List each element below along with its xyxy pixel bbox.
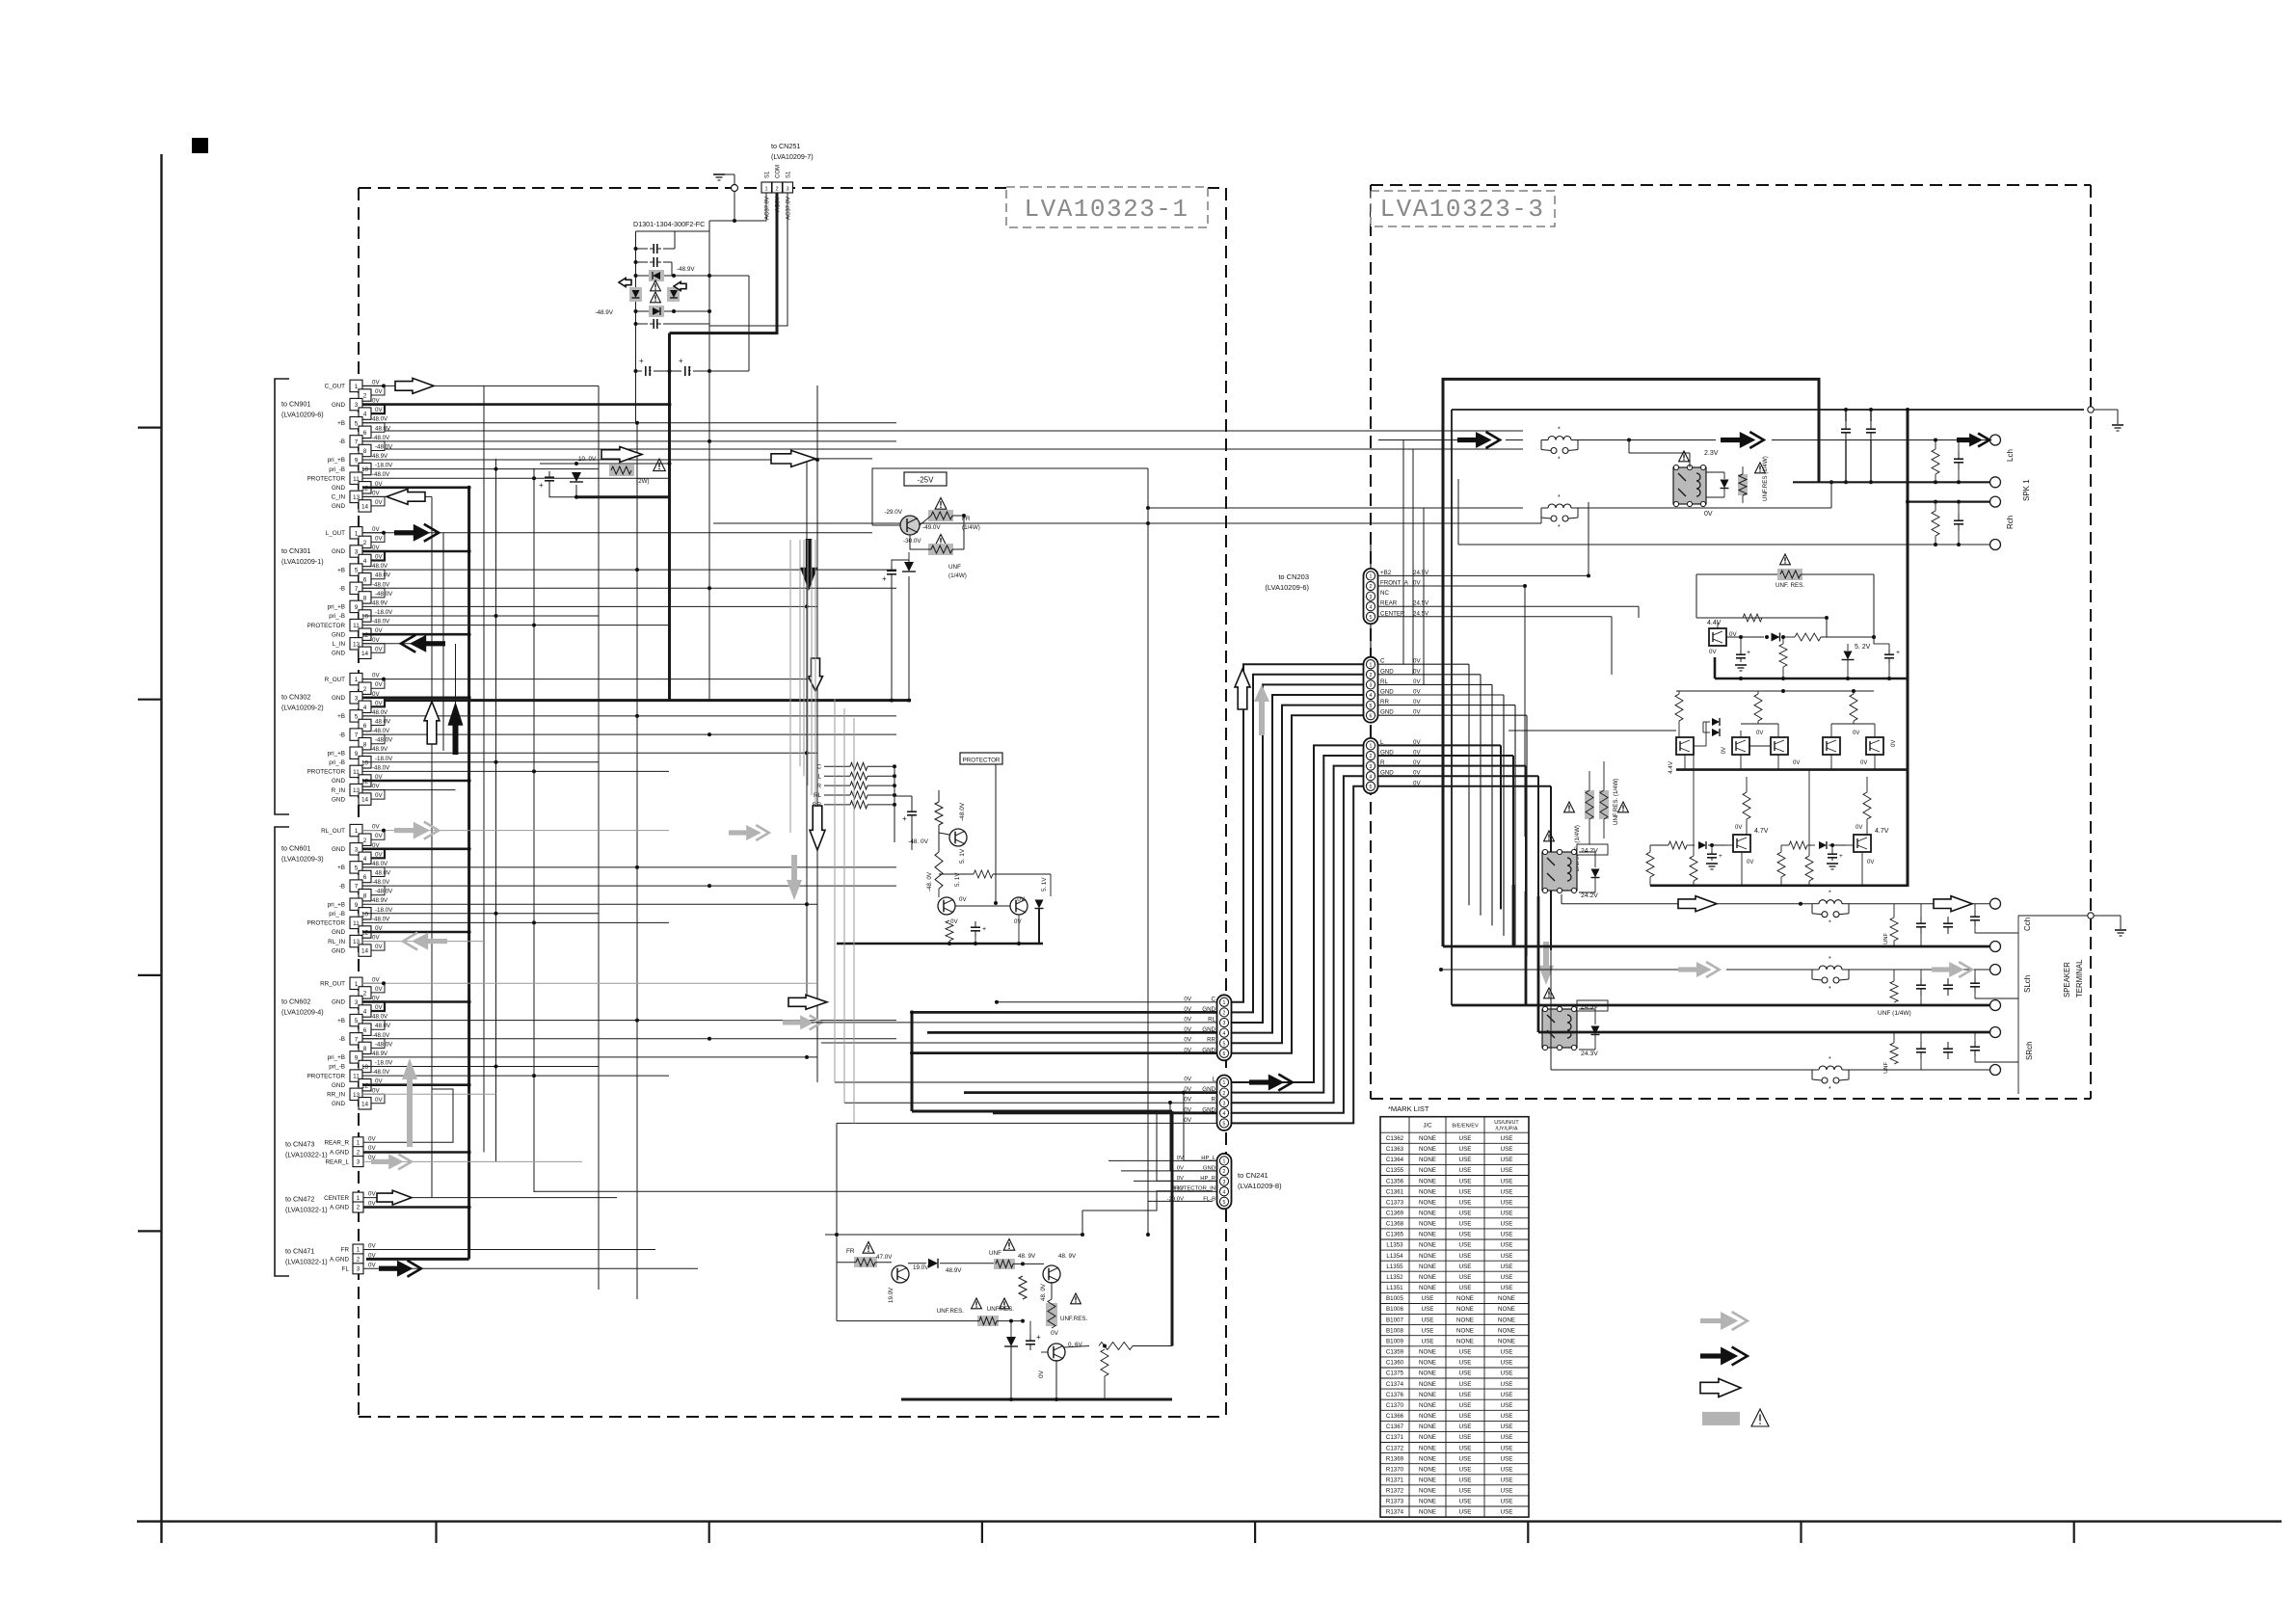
svg-text:*: * xyxy=(1829,1086,1831,1093)
svg-text:USE: USE xyxy=(1501,1455,1513,1462)
svg-text:R1372: R1372 xyxy=(1386,1488,1404,1495)
svg-text:*: * xyxy=(1829,920,1831,927)
svg-text:+: + xyxy=(1839,853,1843,860)
bridge electrolytic cap 1 xyxy=(636,370,643,372)
svg-text:L1353: L1353 xyxy=(1386,1242,1403,1249)
wire CN302 pin3-pin4 jumper xyxy=(362,698,385,707)
svg-text:19.0V: 19.0V xyxy=(913,1264,929,1271)
svg-text:1: 1 xyxy=(1223,1080,1226,1086)
svg-text:USE: USE xyxy=(1501,1392,1513,1398)
svg-text:(1/4W): (1/4W) xyxy=(962,524,980,531)
svg-text:C1373: C1373 xyxy=(1386,1199,1404,1206)
svg-text:(LVA10209-1): (LVA10209-1) xyxy=(281,557,324,566)
connector CN301 pin 2 xyxy=(359,536,371,547)
svg-text:6: 6 xyxy=(363,1027,367,1034)
connector CN301 pin 1 xyxy=(350,527,362,539)
diode RY3 xyxy=(1591,1026,1600,1035)
svg-text:5. 1V: 5. 1V xyxy=(1041,877,1048,891)
svg-text:3: 3 xyxy=(1370,595,1373,600)
wire stack gray feeds xyxy=(799,540,801,766)
wire J4 GND right xyxy=(1378,755,1513,757)
svg-text:+B: +B xyxy=(337,420,345,427)
connector CN602 pin 7 xyxy=(350,1033,362,1045)
terminal Rch+ xyxy=(1990,496,2001,507)
warning RY1 xyxy=(1679,451,1690,462)
warning RY2 xyxy=(1544,831,1555,841)
wire bus x837 xyxy=(806,459,808,1002)
arrow black Lch feed xyxy=(1457,438,1478,442)
svg-text:pri_+B: pri_+B xyxy=(328,457,345,464)
connector CN302 pin 8 xyxy=(359,738,371,750)
svg-text:14: 14 xyxy=(361,651,369,657)
svg-text:B1009: B1009 xyxy=(1386,1339,1403,1345)
svg-text:24.3V: 24.3V xyxy=(1581,1051,1598,1057)
svg-text:-48.0V: -48.0V xyxy=(372,435,390,441)
wire CN901 pin5 net xyxy=(362,422,896,424)
svg-text:+: + xyxy=(539,481,544,490)
svg-text:-B: -B xyxy=(339,883,345,890)
svg-text:GND: GND xyxy=(332,695,345,702)
svg-text:NONE: NONE xyxy=(1419,1466,1436,1473)
wire CN602 pin1 net xyxy=(362,982,817,984)
svg-text:+B: +B xyxy=(337,713,345,720)
svg-text:NONE: NONE xyxy=(1498,1339,1515,1345)
svg-text:4: 4 xyxy=(1370,604,1373,610)
legend gray double arrow xyxy=(1700,1318,1722,1323)
svg-text:UNF. RES.: UNF. RES. xyxy=(1775,582,1804,589)
svg-text:RL_IN: RL_IN xyxy=(328,939,345,945)
gray feed wires xyxy=(789,540,791,833)
bridge cap C upper xyxy=(636,248,649,250)
wire J4 p5 right xyxy=(1378,785,1551,787)
svg-text:NONE: NONE xyxy=(1456,1295,1474,1302)
bridge arrow left upper xyxy=(619,279,631,287)
connector CN301 pin 7 xyxy=(350,582,362,594)
svg-text:*: * xyxy=(1829,956,1831,963)
arrow hollow Cch xyxy=(1678,896,1717,912)
svg-text:LVA10323-1: LVA10323-1 xyxy=(1024,195,1188,224)
wire bundle A3 xyxy=(1232,684,1363,1023)
wire CN302 pin11 net xyxy=(362,770,669,772)
wire 1123 riser xyxy=(1081,1211,1083,1235)
svg-text:L: L xyxy=(817,773,821,780)
resistor v 1091 xyxy=(1046,1303,1057,1326)
connector CN602 pin 10 xyxy=(359,1060,371,1072)
svg-text:9: 9 xyxy=(355,604,359,611)
svg-text:to CN473: to CN473 xyxy=(285,1139,314,1148)
wire Lch feed xyxy=(1378,439,1457,441)
svg-text:3: 3 xyxy=(1370,764,1373,770)
svg-text:USE: USE xyxy=(1501,1445,1513,1451)
svg-text:GND: GND xyxy=(332,846,345,853)
svg-text:to CN602: to CN602 xyxy=(281,997,310,1005)
resistor mid2 xyxy=(1795,633,1821,641)
cap SLch pair xyxy=(1920,978,1922,985)
wire CN602 pin5-pin6 jumper xyxy=(362,1021,385,1030)
svg-text:6: 6 xyxy=(363,430,367,437)
svg-text:24.2V: 24.2V xyxy=(1581,892,1598,899)
svg-text:7: 7 xyxy=(355,884,359,891)
svg-text:-48.0V: -48.0V xyxy=(959,802,966,821)
wire CN601 pin7-pin8 jumper xyxy=(362,886,385,895)
wire CN251 pin2 thick drop xyxy=(670,193,778,333)
svg-text:0V: 0V xyxy=(950,918,958,925)
svg-text:UNF.RES (1/4W): UNF.RES (1/4W) xyxy=(1762,456,1769,501)
svg-text:-30.0V: -30.0V xyxy=(903,538,921,545)
resistor Cch net xyxy=(1890,918,1898,941)
arrow hollow down x848b xyxy=(810,806,825,850)
wire thick zener out y515 xyxy=(576,495,670,498)
node on dashed edge (circle) xyxy=(732,185,738,192)
svg-text:NONE: NONE xyxy=(1419,1434,1436,1441)
wire CN602 pin10 net xyxy=(362,1066,599,1068)
svg-text:GND: GND xyxy=(332,485,345,492)
svg-text:NONE: NONE xyxy=(1419,1232,1436,1238)
svg-text:+B2: +B2 xyxy=(1380,570,1392,576)
svg-text:C_OUT: C_OUT xyxy=(325,384,345,390)
svg-text:PROTECTOR: PROTECTOR xyxy=(307,623,346,629)
wire rail to board3 y527 xyxy=(1148,507,1523,509)
transistor Q FR xyxy=(892,1265,909,1283)
PROTECTOR label box xyxy=(960,753,1002,764)
svg-text:3: 3 xyxy=(1370,683,1373,689)
svg-text:0V: 0V xyxy=(375,1097,383,1104)
wire bus x848 xyxy=(816,386,818,1082)
connector CN301 pin 10 xyxy=(359,610,371,622)
svg-text:USE: USE xyxy=(1501,1274,1513,1281)
wire CN301 pin7 net xyxy=(362,587,896,589)
svg-text:7: 7 xyxy=(355,1036,359,1043)
svg-text:pri_+B: pri_+B xyxy=(328,604,345,611)
svg-text:NONE: NONE xyxy=(1419,1221,1436,1228)
svg-text:9: 9 xyxy=(355,458,359,465)
svg-text:0V: 0V xyxy=(372,490,380,496)
wire amp pair3 xyxy=(1831,723,1875,725)
svg-text:D1301-1304-300F2-FC: D1301-1304-300F2-FC xyxy=(633,220,705,228)
wire feed SRch thick xyxy=(1537,896,1540,1032)
wire CN241 HP feeds xyxy=(1183,1093,1185,1161)
svg-text:pri_+B: pri_+B xyxy=(328,750,345,757)
svg-text:REAR_R: REAR_R xyxy=(324,1140,349,1147)
svg-text:to CN601: to CN601 xyxy=(281,844,310,853)
svg-text:USE: USE xyxy=(1459,1466,1472,1473)
wire CN472 pin1 net xyxy=(363,1197,617,1199)
svg-text:2: 2 xyxy=(357,1149,360,1156)
svg-text:B/E/EN/EV: B/E/EN/EV xyxy=(1452,1124,1479,1130)
wire CN203 risers xyxy=(1588,502,1589,575)
transistor Q1 cluster xyxy=(949,829,967,846)
wire CN302 pin5-pin6 jumper xyxy=(362,716,385,726)
svg-text:USE: USE xyxy=(1459,1157,1472,1163)
svg-text:C1355: C1355 xyxy=(1386,1167,1404,1174)
wire CN901 pin3-pin4 jumper xyxy=(362,405,385,414)
diode pre47a xyxy=(1698,841,1706,849)
arrow gray up bundle xyxy=(1254,684,1269,735)
wire CN471 pin3 net xyxy=(363,1267,698,1269)
svg-text:1: 1 xyxy=(1223,1000,1226,1006)
wire CN302 pin1 net xyxy=(362,678,817,680)
wire CN301 pin3-pin4 jumper xyxy=(362,551,385,561)
svg-text:PROTECTOR: PROTECTOR xyxy=(307,920,346,927)
svg-text:-29.0V: -29.0V xyxy=(884,509,902,516)
svg-text:NONE: NONE xyxy=(1419,1499,1436,1505)
svg-text:USE: USE xyxy=(1459,1178,1472,1184)
transistor Q3 cluster xyxy=(1010,897,1028,915)
wire -B rail to board3 y466 xyxy=(385,448,1523,450)
wire J2 feeders xyxy=(834,699,836,1082)
svg-text:+: + xyxy=(679,357,683,365)
svg-text:USE: USE xyxy=(1459,1221,1472,1228)
relay RY1 wires xyxy=(1689,453,1691,467)
connector CN601 pin 5 xyxy=(350,862,362,873)
svg-text:10. 0V: 10. 0V xyxy=(578,456,597,463)
svg-text:L1354: L1354 xyxy=(1386,1253,1403,1260)
wire CN602 pin13 net xyxy=(362,1093,496,1095)
svg-text:4.4V: 4.4V xyxy=(1707,620,1722,626)
svg-text:NONE: NONE xyxy=(1419,1135,1436,1142)
svg-text:48.0V: 48.0V xyxy=(372,861,388,867)
wire feed SLch thick xyxy=(1525,891,1528,1005)
zener -25V xyxy=(904,562,914,572)
svg-text:-48.0V: -48.0V xyxy=(372,471,390,478)
wire CN472 pin2 gnd xyxy=(363,1206,469,1209)
svg-text:NONE: NONE xyxy=(1419,1477,1436,1484)
svg-text:NONE: NONE xyxy=(1456,1327,1474,1334)
connector CN473 pin 3 xyxy=(353,1157,363,1167)
svg-text:USE: USE xyxy=(1459,1274,1472,1281)
arrow gray J1 RL xyxy=(783,1020,802,1024)
connector CN601 pin 14 xyxy=(359,945,371,956)
wire CN602 pin9 net xyxy=(362,1056,817,1058)
wire J1 GND4 thick xyxy=(927,1031,1216,1034)
svg-text:-29.0V: -29.0V xyxy=(1167,1196,1184,1202)
svg-text:GND: GND xyxy=(332,999,345,1006)
arrow R_OUT up (hollow) xyxy=(424,702,440,744)
wire bus C_IN x448 xyxy=(431,497,433,1199)
svg-text:C1376: C1376 xyxy=(1386,1392,1404,1398)
connector CN901 pin 3 xyxy=(350,398,362,410)
svg-text:-18.0V: -18.0V xyxy=(375,756,393,762)
svg-text:0V: 0V xyxy=(1184,1097,1191,1104)
wire CN203 +B2 xyxy=(1378,574,1589,576)
wire FL_B wire xyxy=(1148,1201,1213,1235)
svg-text:USE: USE xyxy=(1459,1232,1472,1238)
bracket group CN901-CN302 xyxy=(275,379,289,814)
svg-text:5. 2V: 5. 2V xyxy=(1855,644,1871,651)
svg-text:USE: USE xyxy=(1501,1157,1513,1163)
left border tick 2 xyxy=(138,699,162,701)
resistor under pre47a xyxy=(1646,852,1654,877)
svg-text:USE: USE xyxy=(1459,1455,1472,1462)
svg-text:USE: USE xyxy=(1501,1509,1513,1516)
svg-text:C: C xyxy=(816,764,821,771)
wire CN301 pin10 net xyxy=(362,615,599,617)
svg-text:GND: GND xyxy=(332,1082,345,1089)
svg-text:C1369: C1369 xyxy=(1386,1211,1404,1217)
wire bundle A2 xyxy=(1232,675,1363,1013)
svg-text:Cch: Cch xyxy=(2023,918,2032,931)
svg-text:USE: USE xyxy=(1459,1188,1472,1195)
wire bottom rail y1281 xyxy=(825,1234,1082,1236)
svg-text:GND: GND xyxy=(332,503,345,510)
svg-text:48.9V: 48.9V xyxy=(372,746,388,753)
arrow C_OUT (hollow right) xyxy=(395,378,434,393)
wire CN241 PROTECTOR_IN xyxy=(534,1190,1216,1192)
wire zener bottom xyxy=(549,487,576,497)
wire thick GND horiz y726 xyxy=(386,699,911,702)
svg-text:NONE: NONE xyxy=(1419,1423,1436,1430)
RC Lch cap xyxy=(1958,452,1960,459)
connector CN602 pin 5 xyxy=(350,1014,362,1025)
svg-text:UNF.RES.: UNF.RES. xyxy=(1060,1316,1087,1322)
svg-text:5: 5 xyxy=(1223,1200,1226,1206)
page bottom border xyxy=(137,1520,2282,1522)
wire CN602 pin11 net xyxy=(362,1075,669,1077)
resistor h 1025 xyxy=(977,1316,999,1326)
svg-text:-B: -B xyxy=(339,732,345,738)
wire unfres l xyxy=(837,1320,979,1322)
svg-text:9: 9 xyxy=(355,751,359,758)
svg-text:USE: USE xyxy=(1501,1211,1513,1217)
arrow RL_OUT (gray right) xyxy=(394,828,415,833)
svg-text:SPEAKER: SPEAKER xyxy=(2063,962,2071,998)
svg-text:14: 14 xyxy=(361,797,369,804)
resistor relay gray 2 xyxy=(1599,790,1609,819)
wire CN473 pin3 net xyxy=(363,1160,582,1162)
svg-text:0V: 0V xyxy=(375,681,383,688)
arrow CN473 gray right xyxy=(371,1159,390,1164)
arrow right hollow y475 xyxy=(771,450,815,466)
zener bottom xyxy=(1006,1337,1016,1346)
wire CN203 CENTER xyxy=(1378,616,1612,618)
svg-text:R1369: R1369 xyxy=(1386,1455,1404,1462)
svg-text:0V: 0V xyxy=(1722,747,1727,754)
wire CN601 pin3 net xyxy=(362,847,469,850)
warning relay2 xyxy=(1618,802,1629,812)
wire Cch ret thick xyxy=(1443,945,1989,948)
svg-text:0V: 0V xyxy=(1853,731,1859,736)
bracket group CN601-CN471 xyxy=(275,827,289,1276)
svg-text:USE: USE xyxy=(1459,1167,1472,1174)
svg-text:GND: GND xyxy=(332,947,345,954)
svg-text:3: 3 xyxy=(355,549,359,556)
cap gnd 47a xyxy=(1711,851,1713,854)
resistor under amp1 xyxy=(1690,856,1697,881)
svg-text:L_OUT: L_OUT xyxy=(326,530,345,537)
svg-text:3: 3 xyxy=(357,1266,360,1273)
arrow black Lch out xyxy=(1721,438,1742,442)
wire bundle B1 xyxy=(1232,745,1363,1082)
svg-text:USE: USE xyxy=(1459,1285,1472,1291)
svg-text:NONE: NONE xyxy=(1498,1317,1515,1323)
wire CN601 pin1 net xyxy=(362,830,669,832)
svg-text:9: 9 xyxy=(355,1055,359,1062)
svg-text:(LVA10322-1): (LVA10322-1) xyxy=(285,1206,328,1214)
svg-text:US/UN/UT: US/UN/UT xyxy=(1494,1120,1519,1126)
svg-text:USE: USE xyxy=(1459,1477,1472,1484)
warning UNF xyxy=(935,535,947,546)
svg-text:J/C: J/C xyxy=(1424,1124,1433,1130)
wire -25V block net xyxy=(871,517,873,525)
warning relay1 xyxy=(1564,802,1575,812)
legend gray patch xyxy=(1702,1412,1740,1425)
wire base fr xyxy=(837,1262,856,1264)
connector CN901 pin 5 xyxy=(350,417,362,429)
arrow L_OUT (black right) xyxy=(394,530,415,535)
connector CN472 pin 2 xyxy=(353,1202,363,1212)
svg-text:NONE: NONE xyxy=(1456,1306,1474,1313)
svg-text:NONE: NONE xyxy=(1419,1188,1436,1195)
connector CN301 pin 8 xyxy=(359,592,371,603)
svg-text:2: 2 xyxy=(363,393,367,400)
svg-text:C: C xyxy=(1212,996,1216,1002)
wire L1351 right xyxy=(1578,439,1716,441)
wire Lch minus thick xyxy=(1793,481,1989,483)
svg-text:C1375: C1375 xyxy=(1386,1370,1404,1377)
zener 5.2V xyxy=(1844,652,1853,660)
diode RY2 xyxy=(1591,869,1600,878)
svg-text:USE: USE xyxy=(1422,1306,1434,1313)
cap B3 top 1 xyxy=(1845,421,1847,429)
wire bus pri- x514 xyxy=(495,459,497,1162)
wire thick CN471 gnd xyxy=(366,1258,469,1261)
svg-text:0V: 0V xyxy=(1184,996,1191,1002)
svg-text:NONE: NONE xyxy=(1419,1370,1436,1377)
svg-text:2: 2 xyxy=(775,187,778,193)
wire SLch lead xyxy=(1441,969,1678,971)
transistor box amp5 xyxy=(1866,737,1883,755)
wire bundle B4 xyxy=(1232,776,1363,1113)
svg-text:*: * xyxy=(1558,524,1561,531)
wire CN302 pin7 net xyxy=(362,733,896,735)
connector CN302 pin 7 xyxy=(350,729,362,740)
svg-text:0V: 0V xyxy=(1413,580,1421,587)
warning FR xyxy=(935,498,947,510)
wire Rch minus xyxy=(1458,544,1989,545)
wire bus GND thick x486 xyxy=(467,487,470,1259)
cap cluster xyxy=(911,807,913,811)
wire CN901 pin1-pin2 jumper xyxy=(362,386,385,395)
arrow RL_IN (gray left) xyxy=(426,939,447,944)
svg-text:A.GND: A.GND xyxy=(330,1149,349,1156)
connector CN251 pin 2 xyxy=(772,182,783,193)
svg-text:to CN241: to CN241 xyxy=(1238,1171,1268,1180)
svg-text:USE: USE xyxy=(1501,1188,1513,1195)
connector CN901 pin 1 xyxy=(350,380,362,391)
svg-text:+: + xyxy=(1896,650,1900,656)
legend hollow arrow xyxy=(1700,1379,1741,1397)
relay RY1 diode xyxy=(1721,480,1729,489)
svg-text:-18.0V: -18.0V xyxy=(375,463,393,469)
svg-text:USE: USE xyxy=(1459,1146,1472,1153)
inductor SLch xyxy=(1819,966,1842,970)
svg-text:8: 8 xyxy=(363,596,367,602)
svg-text:0V: 0V xyxy=(368,1191,376,1198)
svg-text:FL: FL xyxy=(342,1266,350,1273)
arrow L_IN (black left) xyxy=(424,641,445,646)
connector CN601 pin 8 xyxy=(359,890,371,901)
svg-text:USE: USE xyxy=(1501,1423,1513,1430)
transistor Q2 cluster xyxy=(938,897,955,915)
svg-text:to CN251: to CN251 xyxy=(771,142,800,150)
board LVA10323-3 outline right xyxy=(2090,185,2092,1099)
svg-text:3: 3 xyxy=(1223,1021,1226,1026)
connector CN601 pin 3 xyxy=(350,843,362,855)
board LVA10323-3 title box xyxy=(1371,191,1555,226)
resistor UNF gray xyxy=(928,544,953,555)
svg-text:UNF.RES. (1/4W): UNF.RES. (1/4W) xyxy=(1613,779,1619,825)
wire feed Cch lead xyxy=(1561,894,1562,904)
